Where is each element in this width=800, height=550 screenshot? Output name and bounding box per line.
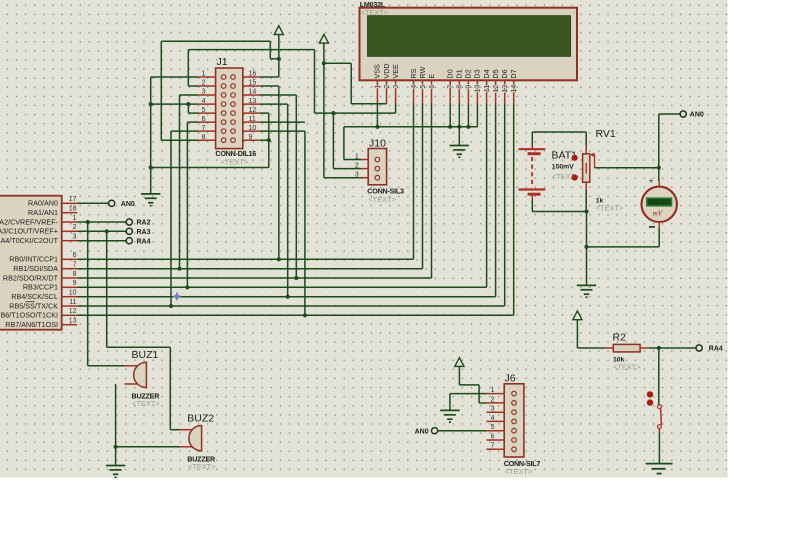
resistor R2 <box>604 332 649 372</box>
svg-text:AN0: AN0 <box>690 112 704 119</box>
svg-text:BUZ1: BUZ1 <box>132 349 159 361</box>
wire RA3 net across <box>107 346 171 348</box>
wire drop to BUZ2 <box>169 347 171 429</box>
ground (buzzers) <box>106 466 125 478</box>
svg-text:3: 3 <box>73 234 77 241</box>
wire RB5 riser to LCD <box>504 104 506 307</box>
junction ground net <box>149 165 153 169</box>
wire to ground symbol <box>150 168 152 194</box>
connector J6 CONN-SIL7 <box>486 372 540 476</box>
junction J1.15/RB0 <box>277 257 281 261</box>
svg-text:4: 4 <box>409 85 418 89</box>
wire J1.15 drop to RB0 <box>278 86 280 259</box>
wire VEE top run to J1.2 <box>188 49 314 51</box>
svg-text:9: 9 <box>73 280 77 287</box>
svg-text:RA2/CVREF/VREF-: RA2/CVREF/VREF- <box>0 217 59 226</box>
wire to power node <box>270 58 279 60</box>
svg-text:8: 8 <box>455 85 464 89</box>
push button <box>647 391 662 432</box>
svg-text:8: 8 <box>202 134 206 141</box>
svg-text:AN0: AN0 <box>121 201 135 208</box>
svg-text:3: 3 <box>391 85 400 89</box>
svg-text:2: 2 <box>202 80 206 87</box>
wire RV1 bottom <box>585 190 587 212</box>
wire RB4 riser to LCD <box>495 104 497 297</box>
wire J1.9 <box>260 139 269 141</box>
junction J1.14/RB2 <box>294 276 298 280</box>
wire J1.2 <box>188 85 198 87</box>
wire RB0 row <box>77 258 413 260</box>
wire power drop to J10.3 <box>323 63 325 177</box>
wire D pin to ground bus <box>467 104 469 127</box>
sheet origin marker <box>173 292 181 300</box>
wire J1.10 <box>260 130 305 132</box>
svg-text:6: 6 <box>73 252 77 259</box>
svg-text:12: 12 <box>491 85 500 93</box>
wire BUZ1 pin2 down <box>115 384 117 447</box>
terminal RA4 (right) <box>696 345 702 351</box>
svg-text:D0: D0 <box>446 69 455 78</box>
wire J1.4 <box>151 103 198 105</box>
wire J1.12 <box>260 112 269 114</box>
wire J1.13 drop to RB4 <box>287 104 289 297</box>
wire VSS down to ground bus <box>376 104 378 127</box>
svg-text:D2: D2 <box>464 69 473 78</box>
svg-text:6: 6 <box>491 433 495 440</box>
ground (under J1) <box>141 194 160 206</box>
wire ground bus <box>344 126 478 128</box>
wire to R2 <box>577 347 604 349</box>
wire J1.8 riser <box>160 41 162 140</box>
junction J1.6/RB3 <box>185 285 189 289</box>
wire VEE riser <box>314 50 316 114</box>
wire drop to J6.2 <box>478 385 480 403</box>
svg-text:1: 1 <box>355 153 359 160</box>
svg-text:10: 10 <box>473 85 482 93</box>
wire power stem <box>278 35 280 59</box>
wire meter bottom run <box>587 246 660 248</box>
wire J1.7 <box>171 130 198 132</box>
wire D pin to ground bus <box>449 104 451 127</box>
junction VEE/J10.2 <box>331 111 335 115</box>
sheet background <box>0 0 728 478</box>
wire RA2 net drop to BUZ1 <box>87 222 89 366</box>
wire D pin to ground bus <box>476 104 478 127</box>
svg-text:<TEXT>: <TEXT> <box>188 462 216 471</box>
svg-text:3: 3 <box>491 406 495 413</box>
wire elbow down <box>269 41 271 59</box>
power +V arrow A3 <box>573 311 582 320</box>
svg-text:J1: J1 <box>217 56 228 68</box>
wire J1.3 <box>180 94 199 96</box>
svg-text:10: 10 <box>249 125 257 132</box>
wire ground run under J1 <box>151 167 269 169</box>
wire to J10 pin1 <box>344 159 361 161</box>
svg-text:RB5/SS/TX/CK: RB5/SS/TX/CK <box>9 301 58 310</box>
junction power/J1.16 <box>277 57 281 61</box>
wire to meter + <box>658 168 660 181</box>
svg-text:RV1: RV1 <box>596 128 616 140</box>
junction J1.3/RB1 <box>177 267 181 271</box>
svg-text:J6: J6 <box>505 372 516 384</box>
terminal AN0 (right) <box>680 111 686 117</box>
wire R2 to RA4 terminal <box>649 347 696 349</box>
junction J1.10/RB6 <box>303 313 307 317</box>
svg-text:8: 8 <box>73 271 77 278</box>
wire J1.1 drop to ground net <box>150 77 152 168</box>
svg-text:4: 4 <box>202 98 206 105</box>
svg-text:5: 5 <box>491 424 495 431</box>
wire battery - to RV1 bottom <box>532 211 586 213</box>
junction J1.7/RB5 <box>169 304 173 308</box>
svg-text:VSS: VSS <box>373 64 382 79</box>
svg-text:<TEXT>: <TEXT> <box>132 399 160 408</box>
svg-text:D7: D7 <box>509 69 518 78</box>
svg-text:3: 3 <box>355 172 359 179</box>
junction power/VDD <box>322 61 326 65</box>
ground (LCD data) <box>450 146 469 158</box>
wire J1.14 <box>260 94 297 96</box>
svg-text:<TEXT>: <TEXT> <box>596 204 624 213</box>
wire RA4 to terminal <box>77 240 126 242</box>
connector J1 CONN-DIL16 <box>198 56 260 167</box>
wire button to ground <box>658 433 660 464</box>
svg-text:BUZ2: BUZ2 <box>187 413 214 425</box>
svg-text:RA3/C1OUT/VREF+: RA3/C1OUT/VREF+ <box>0 227 58 236</box>
wire RB4 row <box>77 296 495 298</box>
svg-text:RB4/SCK/SCL: RB4/SCK/SCL <box>11 292 58 301</box>
wire J1.16 riser <box>278 59 280 77</box>
svg-text:RB1/SDI/SDA: RB1/SDI/SDA <box>13 264 58 273</box>
wire AN0 to J6 pin5 <box>438 430 487 432</box>
wire to J6 pin1 <box>450 393 487 395</box>
wire to BUZ1 pin 1 <box>88 365 125 367</box>
wire down to button <box>658 348 660 405</box>
svg-text:R2: R2 <box>613 332 627 344</box>
junction R2/button <box>657 346 661 350</box>
svg-text:11: 11 <box>249 116 256 123</box>
svg-text:12: 12 <box>249 107 257 114</box>
svg-text:RA1/AN1: RA1/AN1 <box>28 208 58 217</box>
wire RB2 riser to LCD <box>431 104 433 279</box>
svg-text:14: 14 <box>249 89 257 96</box>
svg-text:RA4: RA4 <box>709 346 723 353</box>
wire to J10 pin2 <box>333 168 361 170</box>
junction bus <box>448 125 452 129</box>
wire J1.6 <box>187 121 198 123</box>
junction buzzer ground <box>114 445 118 449</box>
wire battery - down <box>531 200 533 212</box>
terminal AN0 (bottom) <box>432 428 438 434</box>
junction meter return <box>584 245 588 249</box>
wire RB3 riser to LCD <box>486 104 488 288</box>
svg-text:18: 18 <box>69 206 77 213</box>
svg-text:<TEXT>: <TEXT> <box>368 195 396 204</box>
wire J1.10 drop to RB6 <box>304 131 306 315</box>
voltmeter (mV) <box>642 176 677 227</box>
junction wiper/AN0/meter <box>657 166 661 170</box>
wire J1.14 drop to RB2 <box>295 95 297 278</box>
wire to J6 pin2 <box>479 402 486 404</box>
wire VDD stub join <box>386 103 388 105</box>
wire J1.6 drop to RB3 <box>186 122 188 287</box>
wire RB1 row <box>77 268 422 270</box>
svg-text:VEE: VEE <box>391 64 400 79</box>
svg-text:D6: D6 <box>500 69 509 78</box>
svg-text:1: 1 <box>373 85 382 89</box>
svg-text:7: 7 <box>73 262 77 269</box>
buzzer BUZ1 <box>124 349 160 408</box>
svg-text:<TEXT>: <TEXT> <box>505 467 533 476</box>
wire AN0 net down <box>658 114 660 168</box>
svg-text:3: 3 <box>202 89 206 96</box>
wire bus to ground <box>458 127 460 146</box>
wire J1.11 <box>260 121 305 123</box>
wire D pin to ground bus <box>458 104 460 127</box>
svg-text:7: 7 <box>202 125 206 132</box>
wire RB3 row <box>77 286 486 288</box>
junction J1.1/J1.4 <box>149 102 153 106</box>
wire J1.12/J1.9 column <box>268 113 270 167</box>
wire RB2 row <box>77 277 431 279</box>
wire power stem A2 <box>323 43 325 63</box>
wire RB0 riser to LCD <box>413 104 415 260</box>
svg-text:RA4/T0CKI/C2OUT: RA4/T0CKI/C2OUT <box>0 236 59 245</box>
svg-text:AN0: AN0 <box>415 428 429 435</box>
wire VEE run left <box>315 112 396 114</box>
wire RB6 riser to LCD <box>513 104 515 316</box>
svg-text:6: 6 <box>427 85 436 89</box>
svg-text:RB3/CCP1: RB3/CCP1 <box>23 283 58 292</box>
terminal RA2 <box>126 219 132 225</box>
junction RA2/BUZ1 <box>86 220 90 224</box>
wire AN0 from RA0 <box>77 202 108 204</box>
svg-text:RB0/INT/CCP1: RB0/INT/CCP1 <box>9 255 58 264</box>
svg-text:13: 13 <box>69 318 77 325</box>
svg-text:VDD: VDD <box>382 63 391 78</box>
svg-text:9: 9 <box>249 134 253 141</box>
microcontroller U1 (PIC, clipped at left edge) <box>0 196 77 330</box>
terminal RA3 <box>126 228 132 234</box>
svg-text:RS: RS <box>409 68 418 78</box>
svg-text:16: 16 <box>249 71 257 78</box>
wire to AN0 terminal <box>659 113 680 115</box>
wire J1.2 riser <box>187 50 189 86</box>
svg-text:RW: RW <box>418 67 427 79</box>
wire RB6 row <box>77 314 513 316</box>
wire VDD riser <box>350 63 352 104</box>
svg-text:RA3: RA3 <box>137 229 151 236</box>
svg-text:1: 1 <box>202 71 206 78</box>
power +V arrow A2 <box>319 34 328 43</box>
wire meter - down <box>658 228 660 247</box>
wire power run <box>459 384 479 386</box>
terminal RA4 (left) <box>126 238 132 244</box>
svg-text:150mV: 150mV <box>552 164 574 171</box>
svg-text:D1: D1 <box>455 69 464 78</box>
svg-text:D3: D3 <box>473 69 482 78</box>
wire RA3 net drop <box>106 231 108 347</box>
junction J1.4/J1.5 <box>186 102 190 106</box>
svg-text:11: 11 <box>69 299 76 306</box>
svg-text:12: 12 <box>69 308 77 315</box>
wire RA3 <box>77 230 126 232</box>
svg-text:<TEXT>: <TEXT> <box>613 362 641 371</box>
ground (button) <box>646 464 673 474</box>
junction J1.13/RB4 <box>286 295 290 299</box>
wire VDD run <box>351 103 386 105</box>
wire RV1 top <box>585 132 587 145</box>
power +V arrow A1 <box>274 26 283 35</box>
buzzer BUZ2 <box>180 413 216 471</box>
potentiometer RV1 <box>572 128 624 212</box>
svg-text:11: 11 <box>482 85 491 92</box>
junction RV1/BAT- <box>584 209 588 213</box>
LCD display LM032L <box>360 0 578 104</box>
wire J1.8 top run <box>161 40 270 42</box>
svg-text:D4: D4 <box>482 69 491 78</box>
wire to BUZ2 pin 1 <box>170 429 180 431</box>
svg-text:RB7/AN6/T1OSI: RB7/AN6/T1OSI <box>5 320 58 329</box>
svg-text:6: 6 <box>202 116 206 123</box>
svg-text:17: 17 <box>69 196 77 203</box>
wire J1.5 elbow <box>187 104 189 113</box>
svg-text:13: 13 <box>500 85 509 93</box>
svg-text:D5: D5 <box>491 69 500 78</box>
connector J10 CONN-SIL3 <box>355 138 404 205</box>
wire to ground <box>586 247 588 285</box>
svg-text:9: 9 <box>464 85 473 89</box>
ground (J6) <box>440 410 459 422</box>
wire power stem A4 <box>458 366 460 385</box>
svg-text:RA0/AN0: RA0/AN0 <box>28 199 58 208</box>
wire to J10 pin3 <box>324 177 361 179</box>
ground (meter) <box>577 285 596 297</box>
junction J1.9 <box>267 138 271 142</box>
svg-text:RB6/T1OSO/T1CKI: RB6/T1OSO/T1CKI <box>0 311 58 320</box>
svg-text:2: 2 <box>382 85 391 89</box>
wire power stem A3 <box>576 320 578 348</box>
wire J1.13 <box>260 103 288 105</box>
wire VEE down <box>395 104 397 114</box>
junction RA3/BUZ2 <box>105 229 109 233</box>
svg-text:10: 10 <box>69 290 77 297</box>
wire to ground <box>115 447 117 466</box>
wire ground stem up <box>449 394 451 411</box>
svg-text:7: 7 <box>491 443 495 450</box>
svg-text:RA4: RA4 <box>137 238 151 245</box>
junction VSS/bus <box>375 125 379 129</box>
wire VDD to power node <box>324 62 351 64</box>
svg-text:1: 1 <box>73 215 77 222</box>
svg-text:E: E <box>427 74 436 79</box>
svg-text:+00.0: +00.0 <box>649 201 665 207</box>
wire J1.1 <box>151 76 198 78</box>
wire battery + up <box>531 132 533 146</box>
power +V arrow A4 <box>455 358 464 367</box>
svg-text:J10: J10 <box>369 138 386 150</box>
svg-text:1: 1 <box>491 387 495 394</box>
wire J1.16 <box>260 76 279 78</box>
svg-text:+: + <box>649 176 654 185</box>
svg-text:14: 14 <box>509 85 518 93</box>
svg-text:4: 4 <box>491 415 495 422</box>
wire J1.5 <box>188 112 198 114</box>
svg-text:mV: mV <box>653 209 664 217</box>
wire RA2 <box>77 221 126 223</box>
wire RB5 row <box>77 305 504 307</box>
wire drop to J10.2 <box>332 113 334 169</box>
svg-text:2: 2 <box>491 396 495 403</box>
wire down to meter return <box>586 212 588 247</box>
svg-text:<TEXT>: <TEXT> <box>221 158 249 167</box>
wire RV1 wiper to meter net <box>595 167 659 169</box>
junction bus <box>457 125 461 129</box>
wire J1.7 drop to RB5 <box>170 131 172 306</box>
svg-text:5: 5 <box>418 85 427 89</box>
svg-text:15: 15 <box>249 80 257 87</box>
svg-text:RA2: RA2 <box>137 220 151 227</box>
junction bus <box>466 125 470 129</box>
wire J1.3 drop to RB1 <box>179 95 181 269</box>
terminal AN0 (left) <box>109 200 115 206</box>
wire RB1 riser to LCD <box>422 104 424 269</box>
svg-text:2: 2 <box>73 224 77 231</box>
svg-text:7: 7 <box>446 85 455 89</box>
svg-text:2: 2 <box>355 162 359 169</box>
wire battery to RV1 top <box>532 131 586 133</box>
svg-text:RB2/SDO/RX/DT: RB2/SDO/RX/DT <box>3 273 59 282</box>
wire J1.8 <box>161 139 198 141</box>
svg-text:13: 13 <box>249 98 257 105</box>
svg-text:5: 5 <box>202 107 206 114</box>
battery BAT1 <box>519 145 580 200</box>
wire J1.15 <box>260 85 279 87</box>
wire BUZ2 pin2 to ground net <box>116 446 180 448</box>
wire bus down to J10.1 <box>343 127 345 160</box>
